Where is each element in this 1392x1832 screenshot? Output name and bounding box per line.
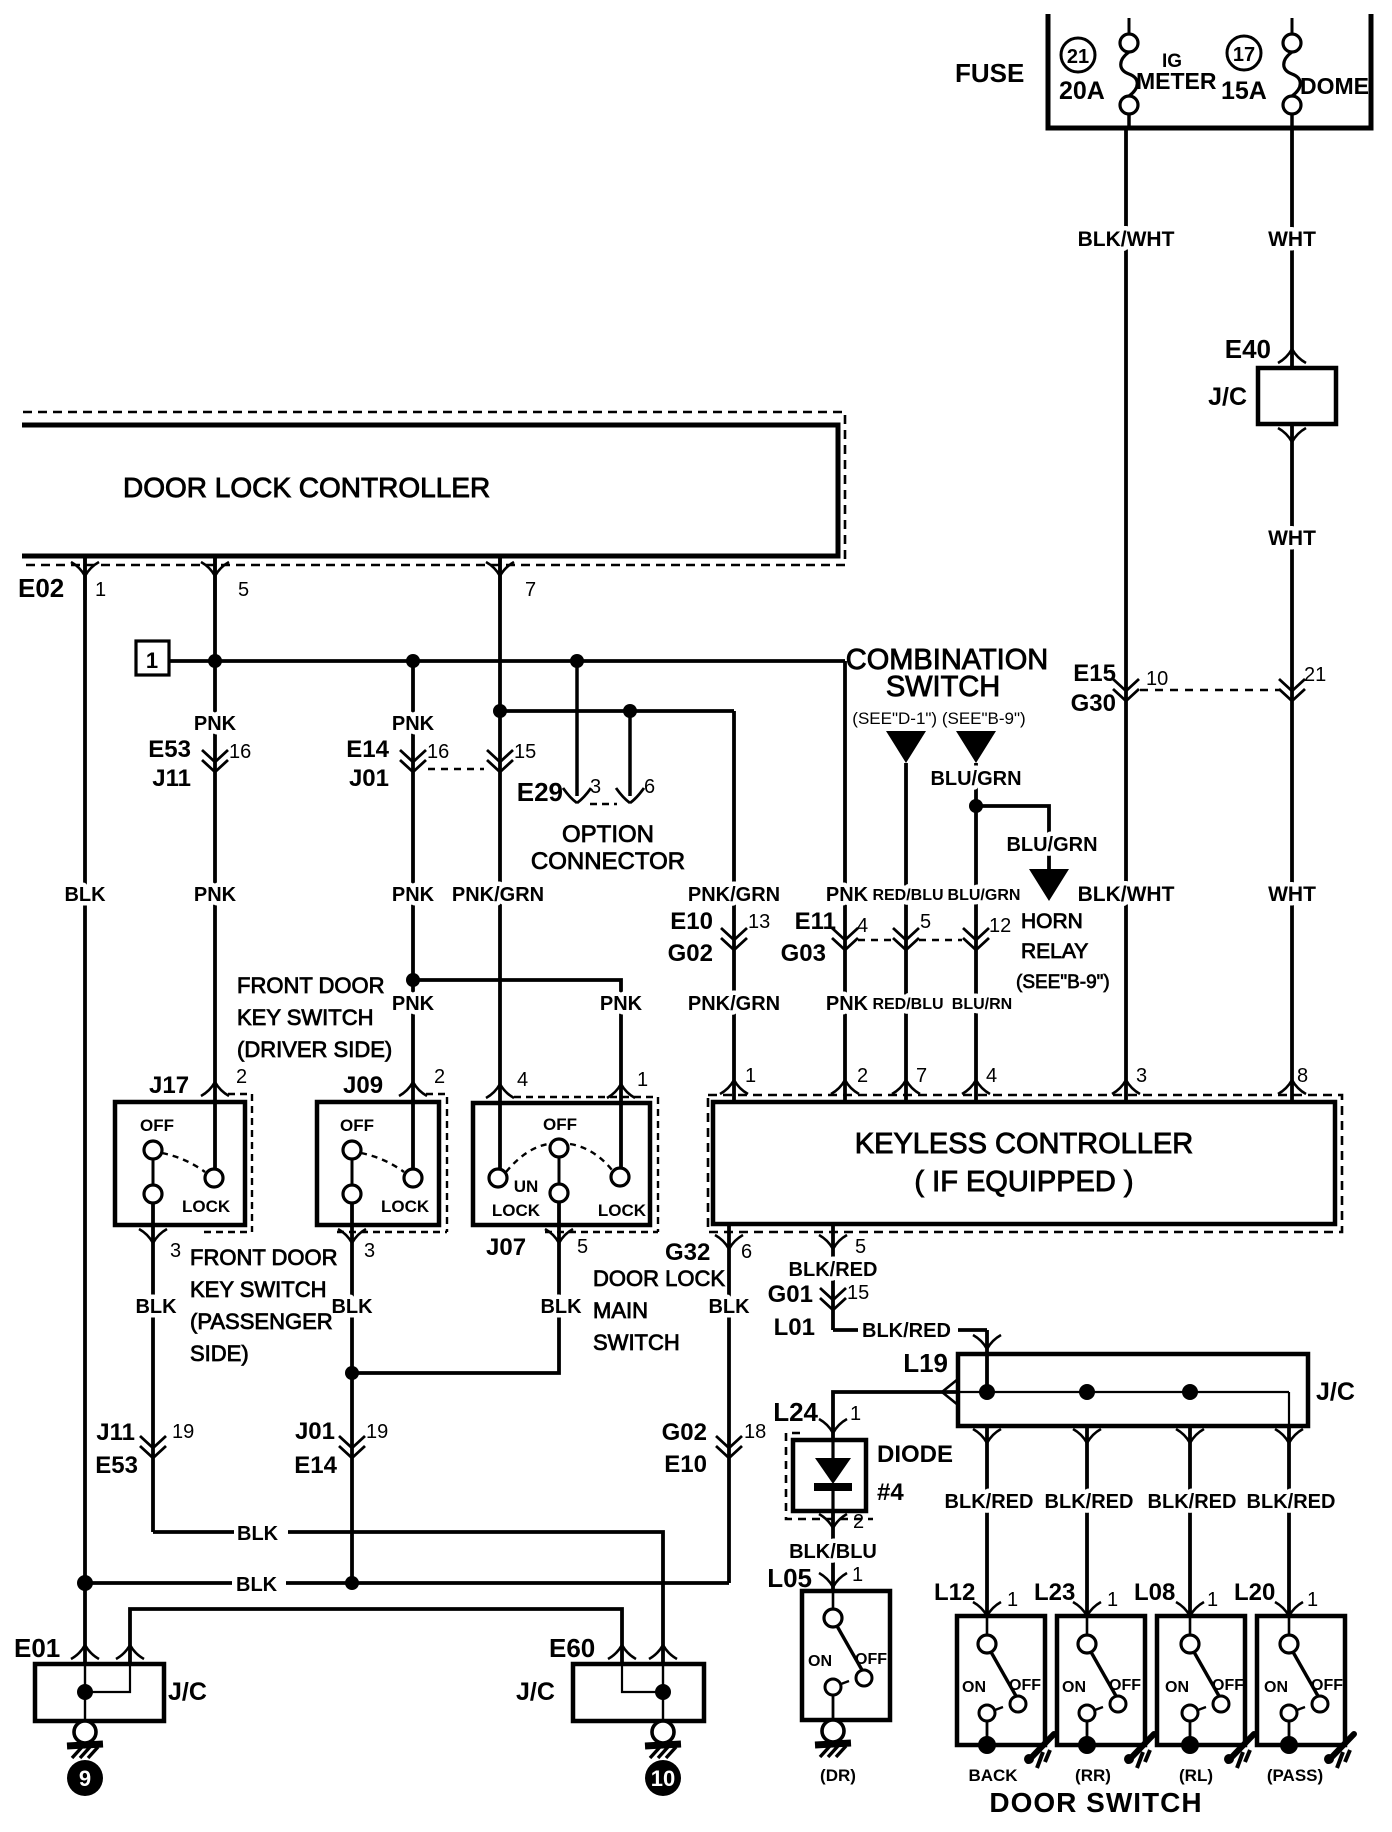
junction connector E60: [516, 1633, 704, 1721]
junction dot: [406, 973, 420, 987]
svg-text:10: 10: [651, 1766, 675, 1791]
svg-text:(SEE"B-9"): (SEE"B-9"): [1016, 972, 1110, 993]
svg-text:1: 1: [1007, 1589, 1018, 1611]
svg-text:ON: ON: [1062, 1679, 1086, 1696]
junction dot: [623, 704, 637, 718]
label BLU/GRN: [948, 887, 1021, 904]
svg-text:OFF: OFF: [1311, 1677, 1343, 1694]
wire BLK/WHT fuse to keyless pin3: [1124, 128, 1128, 1102]
ground at E01: [67, 1721, 103, 1758]
wire diode pin2 down: [831, 1511, 835, 1591]
label PNK/GRN: [688, 884, 780, 906]
wire BLK/RED L19 to L20: [1287, 1426, 1291, 1616]
svg-text:(PASS): (PASS): [1267, 1766, 1323, 1785]
door switch L12 BACK: [934, 1579, 1054, 1785]
svg-text:E02: E02: [18, 573, 64, 603]
svg-text:3: 3: [170, 1240, 181, 1262]
L19 bottom pin: [1275, 1429, 1303, 1443]
label DOOR SWITCH: [989, 1787, 1202, 1818]
svg-text:E14: E14: [346, 736, 389, 763]
keyless pin 6: [715, 1235, 752, 1263]
svg-text:BLK/RED: BLK/RED: [945, 1491, 1034, 1513]
svg-text:15: 15: [514, 741, 536, 763]
svg-text:L08: L08: [1134, 1579, 1175, 1606]
diode #4: [786, 1433, 953, 1519]
svg-text:BLK/RED: BLK/RED: [1247, 1491, 1336, 1513]
svg-text:OFF: OFF: [543, 1115, 577, 1134]
junction dot: [345, 1576, 359, 1590]
svg-text:5: 5: [238, 579, 249, 601]
label BLK: [708, 1296, 750, 1318]
label front door key switch passenger side: [190, 1245, 337, 1366]
connector J11/E53 pin 19: [95, 1419, 194, 1479]
svg-text:BLK: BLK: [540, 1296, 582, 1318]
svg-text:3: 3: [590, 776, 601, 798]
svg-text:METER: METER: [1136, 68, 1217, 94]
wire node1 bus: [169, 659, 845, 663]
svg-text:6: 6: [741, 1241, 752, 1263]
pin into L19: [973, 1335, 1001, 1349]
svg-text:E29: E29: [517, 777, 563, 807]
svg-text:WHT: WHT: [1268, 527, 1316, 550]
svg-text:CONNECTOR: CONNECTOR: [531, 848, 685, 875]
fuse box: [955, 14, 1371, 128]
svg-text:(DRIVER SIDE): (DRIVER SIDE): [237, 1037, 392, 1062]
wire BLK E02-1 down: [83, 556, 87, 1583]
svg-text:4: 4: [857, 915, 868, 937]
connector G02/E10 pin 18: [662, 1419, 767, 1478]
svg-text:E01: E01: [14, 1633, 60, 1663]
keyless pin 5: [819, 1235, 866, 1258]
label BLK/WHT top: [1078, 228, 1175, 251]
svg-text:1: 1: [850, 1403, 861, 1425]
svg-text:G03: G03: [781, 940, 826, 967]
ground ref 10: [645, 1760, 681, 1796]
door switch L08 (RL): [1134, 1579, 1254, 1785]
L19 bottom pin: [1176, 1429, 1204, 1443]
label G32: [665, 1239, 710, 1266]
J09 pin 3: [338, 1229, 375, 1262]
svg-text:RED/BLU: RED/BLU: [872, 996, 943, 1013]
option connector E29 pins 3 6: [517, 661, 685, 875]
svg-text:J11: J11: [96, 1419, 135, 1446]
wire BLK/RED L19 to L12: [985, 1426, 989, 1616]
connector G01/L01 pin 15: [768, 1281, 870, 1341]
svg-text:FRONT DOOR: FRONT DOOR: [190, 1245, 337, 1270]
svg-text:PNK: PNK: [392, 993, 435, 1015]
wire PNK branch: [413, 980, 621, 1168]
junction dot: [969, 799, 983, 813]
svg-text:15: 15: [847, 1282, 869, 1304]
svg-text:BLK/RED: BLK/RED: [862, 1320, 951, 1342]
wire G32 pin6 down: [727, 1224, 731, 1583]
svg-text:G01: G01: [768, 1281, 813, 1308]
svg-text:7: 7: [525, 579, 536, 601]
svg-text:PNK: PNK: [392, 884, 435, 906]
keyless controller box: [708, 1095, 1342, 1232]
label PNK: [392, 884, 435, 906]
svg-text:FRONT DOOR: FRONT DOOR: [237, 973, 384, 998]
svg-text:OFF: OFF: [855, 1651, 887, 1668]
svg-text:BLU/RN: BLU/RN: [952, 996, 1012, 1013]
svg-text:E11: E11: [795, 908, 836, 935]
svg-text:16: 16: [229, 741, 251, 763]
label WHT mid: [1268, 527, 1316, 550]
svg-text:16: 16: [427, 741, 449, 763]
svg-text:J/C: J/C: [168, 1678, 207, 1706]
label RED/BLU: [872, 996, 943, 1013]
svg-text:(RR): (RR): [1075, 1766, 1111, 1785]
svg-text:PNK/GRN: PNK/GRN: [688, 884, 780, 906]
svg-text:1: 1: [852, 1564, 863, 1586]
label J07: [486, 1234, 526, 1261]
label door lock main switch: [593, 1266, 725, 1355]
wire BLK to E01: [83, 1583, 87, 1664]
door switch L23 (RR): [1034, 1579, 1154, 1785]
svg-text:BLK/RED: BLK/RED: [1148, 1491, 1237, 1513]
svg-text:J11: J11: [152, 765, 191, 792]
connector J01/E14 pin 19: [294, 1418, 388, 1479]
junction dot: [493, 704, 507, 718]
svg-text:10: 10: [1146, 668, 1168, 690]
svg-text:BLK: BLK: [708, 1296, 750, 1318]
wire bus2 corner down to E10 pin13 wire: [732, 711, 736, 1102]
svg-text:E40: E40: [1225, 334, 1271, 364]
wire WHT fuse to E40: [1290, 128, 1294, 368]
wire WHT E40 to keyless pin8: [1290, 424, 1294, 1102]
label BLK/BLU: [789, 1541, 877, 1563]
combination switch labels: [846, 644, 1048, 728]
wire J09 pin3 down: [350, 1203, 354, 1583]
label BLK/RED: [1045, 1491, 1134, 1513]
label BLK/RED: [1247, 1491, 1336, 1513]
label BLU/RN: [952, 996, 1012, 1013]
svg-text:21: 21: [1304, 664, 1326, 686]
svg-text:BLK/WHT: BLK/WHT: [1078, 883, 1175, 906]
label PNK/GRN: [452, 884, 544, 906]
svg-text:J/C: J/C: [516, 1678, 555, 1706]
svg-text:J/C: J/C: [1208, 383, 1247, 411]
svg-text:DOOR LOCK: DOOR LOCK: [593, 1266, 725, 1291]
svg-text:20A: 20A: [1059, 77, 1105, 105]
label BLK: [135, 1296, 177, 1318]
svg-text:J07: J07: [486, 1234, 526, 1261]
svg-text:J/C: J/C: [1316, 1378, 1355, 1406]
svg-text:SIDE): SIDE): [190, 1341, 249, 1366]
svg-text:(SEE"D-1") (SEE"B-9"): (SEE"D-1") (SEE"B-9"): [852, 709, 1025, 728]
junction dot: [345, 1366, 359, 1380]
svg-text:5: 5: [855, 1236, 866, 1258]
svg-text:(DR): (DR): [820, 1766, 856, 1785]
svg-text:BLU/GRN: BLU/GRN: [1006, 834, 1097, 856]
svg-text:1: 1: [1107, 1589, 1118, 1611]
svg-text:E53: E53: [148, 736, 191, 763]
svg-text:PNK/GRN: PNK/GRN: [452, 884, 544, 906]
svg-text:2: 2: [857, 1065, 868, 1087]
svg-text:1: 1: [1307, 1589, 1318, 1611]
svg-text:12: 12: [989, 915, 1011, 937]
junction connector L19: [903, 1348, 1355, 1426]
svg-text:J01: J01: [349, 765, 389, 792]
svg-text:ON: ON: [1264, 1679, 1288, 1696]
svg-text:ON: ON: [808, 1653, 832, 1670]
svg-text:ON: ON: [1165, 1679, 1189, 1696]
svg-text:E10: E10: [664, 1451, 707, 1478]
svg-text:BLK/RED: BLK/RED: [1045, 1491, 1134, 1513]
svg-text:L23: L23: [1034, 1579, 1075, 1606]
svg-text:18: 18: [744, 1421, 766, 1443]
svg-text:19: 19: [366, 1421, 388, 1443]
svg-text:6: 6: [644, 776, 655, 798]
svg-text:RELAY: RELAY: [1021, 940, 1088, 963]
fuse 17 15A: [1283, 18, 1301, 128]
svg-text:E60: E60: [549, 1633, 595, 1663]
door switch L05 (DR): [767, 1563, 890, 1785]
svg-text:1: 1: [95, 579, 106, 601]
svg-text:BLK/BLU: BLK/BLU: [789, 1541, 877, 1563]
wire bus corner down to E11 pin4 wire: [843, 661, 847, 1102]
svg-text:DOME: DOME: [1300, 73, 1369, 99]
svg-text:21: 21: [1067, 46, 1089, 68]
keyless controller top pins 1 2 7 4 3 8: [720, 1065, 1308, 1094]
svg-text:BLK/RED: BLK/RED: [789, 1259, 878, 1281]
svg-text:E14: E14: [294, 1452, 337, 1479]
svg-text:RED/BLU: RED/BLU: [872, 887, 943, 904]
svg-text:13: 13: [748, 911, 770, 933]
svg-text:LOCK: LOCK: [492, 1201, 541, 1220]
wire BLU/GRN comb to keyless pin4: [974, 763, 978, 1102]
label PNK: [392, 993, 435, 1015]
svg-text:E15: E15: [1073, 660, 1116, 687]
svg-text:#4: #4: [877, 1479, 904, 1506]
svg-text:SWITCH: SWITCH: [593, 1330, 680, 1355]
junction connector E40: [1208, 334, 1336, 442]
label front door key switch driver side: [237, 973, 392, 1062]
node 1 box: [136, 641, 169, 675]
svg-text:OFF: OFF: [1109, 1677, 1141, 1694]
junction dot: [77, 1575, 93, 1591]
svg-text:L05: L05: [767, 1563, 812, 1593]
ground ref 9: [67, 1760, 103, 1796]
svg-text:BLK: BLK: [64, 884, 106, 906]
svg-text:OFF: OFF: [140, 1116, 174, 1135]
svg-text:PNK: PNK: [194, 713, 237, 735]
svg-text:BLK: BLK: [135, 1296, 177, 1318]
wire PNK E02-5 down to J17 LOCK: [213, 556, 217, 1170]
label PNK: [600, 993, 643, 1015]
svg-text:WHT: WHT: [1268, 883, 1316, 906]
svg-text:G30: G30: [1071, 690, 1116, 717]
svg-text:SWITCH: SWITCH: [886, 671, 1000, 703]
svg-text:UN: UN: [514, 1177, 539, 1196]
svg-text:(RL): (RL): [1179, 1766, 1213, 1785]
svg-text:4: 4: [986, 1065, 997, 1087]
svg-text:J09: J09: [343, 1072, 383, 1099]
junction dot: [208, 654, 222, 668]
L19 bottom pin: [1073, 1429, 1101, 1443]
svg-text:L24: L24: [773, 1397, 818, 1427]
junction connector E01: [14, 1633, 207, 1721]
svg-text:DOOR LOCK CONTROLLER: DOOR LOCK CONTROLLER: [123, 472, 490, 503]
connector E15/G30 pins 10-21: [1071, 660, 1327, 717]
L19 left pin arrow: [942, 1379, 958, 1405]
arrow to combination switch B-9: [956, 731, 996, 763]
wire RED/BLU comb to keyless pin7: [904, 763, 908, 1102]
svg-text:KEY SWITCH: KEY SWITCH: [237, 1005, 374, 1030]
junction dot: [406, 654, 420, 668]
junction dot: [570, 654, 584, 668]
svg-text:LOCK: LOCK: [381, 1197, 430, 1216]
label RED/BLU: [872, 887, 943, 904]
svg-text:1: 1: [637, 1069, 648, 1091]
wire BLK/RED L19 to L08: [1188, 1426, 1192, 1616]
svg-text:BLU/GRN: BLU/GRN: [948, 887, 1021, 904]
label BLK: [540, 1296, 582, 1318]
connector E53/J11 pin 16: [148, 736, 251, 792]
svg-text:ON: ON: [962, 1679, 986, 1696]
label PNK: [826, 884, 869, 906]
diode pin 2: [819, 1511, 864, 1533]
svg-text:BLK: BLK: [331, 1296, 373, 1318]
svg-text:BLK: BLK: [236, 1574, 278, 1596]
label BLK/RED: [789, 1259, 878, 1281]
svg-text:BLU/GRN: BLU/GRN: [930, 768, 1021, 790]
svg-text:FUSE: FUSE: [955, 58, 1024, 88]
svg-text:4: 4: [517, 1069, 528, 1091]
svg-text:2: 2: [236, 1066, 247, 1088]
svg-text:J01: J01: [295, 1418, 335, 1445]
svg-text:OFF: OFF: [1009, 1677, 1041, 1694]
L19 bottom pin: [973, 1429, 1001, 1443]
svg-text:MAIN: MAIN: [593, 1298, 648, 1323]
label PNK: [194, 713, 237, 735]
svg-text:E53: E53: [95, 1452, 138, 1479]
svg-text:1: 1: [745, 1065, 756, 1087]
wire pin5 down: [833, 1224, 987, 1392]
svg-text:L01: L01: [774, 1314, 815, 1341]
svg-text:L12: L12: [934, 1579, 975, 1606]
svg-text:LOCK: LOCK: [182, 1197, 231, 1216]
svg-text:L19: L19: [903, 1348, 948, 1378]
label WHT top: [1268, 228, 1316, 251]
label BLK/RED: [1148, 1491, 1237, 1513]
label PNK: [392, 713, 435, 735]
label BLK/RED: [945, 1491, 1034, 1513]
svg-text:( IF EQUIPPED ): ( IF EQUIPPED ): [914, 1166, 1133, 1198]
label PNK: [194, 884, 237, 906]
label BLK/WHT row: [1078, 883, 1175, 906]
label BLK: [331, 1296, 373, 1318]
J07 pin 5: [545, 1229, 588, 1258]
svg-text:BLK/WHT: BLK/WHT: [1078, 228, 1175, 251]
door switch L20 (PASS): [1234, 1579, 1354, 1785]
J17 pin 3: [139, 1229, 181, 1262]
fuse 21 20A: [1120, 18, 1138, 128]
label BLK: [236, 1574, 278, 1596]
svg-text:KEYLESS CONTROLLER: KEYLESS CONTROLLER: [855, 1128, 1193, 1160]
svg-text:5: 5: [920, 911, 931, 933]
wire BLK/RED L19 to L23: [1085, 1426, 1089, 1616]
connector E02 pins 1 5 7: [18, 556, 536, 603]
wire L19 left exit to L24: [833, 1392, 958, 1440]
svg-text:L20: L20: [1234, 1579, 1275, 1606]
svg-text:PNK: PNK: [392, 713, 435, 735]
svg-text:2: 2: [853, 1511, 864, 1533]
svg-text:LOCK: LOCK: [598, 1201, 647, 1220]
svg-text:1: 1: [146, 648, 158, 673]
svg-text:BACK: BACK: [968, 1766, 1018, 1785]
svg-text:15A: 15A: [1221, 77, 1267, 105]
label BLK: [64, 884, 106, 906]
wire PNK/GRN E02-7 down to J07 UNLOCK: [498, 556, 502, 1170]
arrow to combination switch D-1: [886, 731, 926, 763]
svg-text:BLK: BLK: [237, 1523, 279, 1545]
svg-text:OFF: OFF: [340, 1116, 374, 1135]
svg-text:OFF: OFF: [1212, 1677, 1244, 1694]
label WHT row: [1268, 883, 1316, 906]
wire BLK bus2: [85, 1581, 729, 1585]
connector L24 pin 1: [773, 1397, 861, 1433]
svg-text:PNK: PNK: [600, 993, 643, 1015]
svg-text:G02: G02: [662, 1419, 707, 1446]
connector E14/J01 pin16 - E29 pin15: [346, 736, 536, 792]
svg-text:3: 3: [1136, 1065, 1147, 1087]
svg-text:KEY SWITCH: KEY SWITCH: [190, 1277, 327, 1302]
front door key switch driver J17: [115, 1066, 252, 1232]
svg-text:PNK: PNK: [826, 884, 869, 906]
svg-text:WHT: WHT: [1268, 228, 1316, 251]
svg-text:J17: J17: [149, 1072, 189, 1099]
svg-text:DIODE: DIODE: [877, 1441, 953, 1468]
horn relay branch: [976, 806, 1110, 993]
wire J17 pin3 down: [151, 1203, 155, 1532]
svg-text:8: 8: [1297, 1065, 1308, 1087]
door lock controller box: [22, 412, 845, 565]
svg-text:(PASSENGER: (PASSENGER: [190, 1309, 333, 1334]
ground at E60: [645, 1721, 681, 1758]
svg-text:DOOR SWITCH: DOOR SWITCH: [989, 1787, 1202, 1818]
wire BLK J17 to E60: [153, 1532, 663, 1664]
label BLK/RED: [862, 1320, 951, 1342]
svg-text:7: 7: [916, 1065, 927, 1087]
wire bus2: [500, 709, 734, 713]
svg-text:G32: G32: [665, 1239, 710, 1266]
svg-text:HORN: HORN: [1021, 910, 1083, 933]
wire J07 pin5 to J09 wire: [352, 1202, 559, 1373]
svg-text:G02: G02: [668, 940, 713, 967]
svg-text:OPTION: OPTION: [562, 821, 654, 848]
label BLU/GRN: [930, 768, 1021, 790]
svg-text:5: 5: [577, 1236, 588, 1258]
svg-text:PNK/GRN: PNK/GRN: [688, 993, 780, 1015]
label BLK: [237, 1523, 279, 1545]
label PNK/GRN: [688, 993, 780, 1015]
svg-text:19: 19: [172, 1421, 194, 1443]
connector row E10/G02 13 E11/G03 4 5 12: [668, 908, 1012, 967]
svg-text:1: 1: [1207, 1589, 1218, 1611]
svg-text:PNK: PNK: [194, 884, 237, 906]
svg-text:3: 3: [364, 1240, 375, 1262]
svg-text:2: 2: [434, 1066, 445, 1088]
svg-text:17: 17: [1233, 44, 1255, 66]
wire E01-E60 tie: [130, 1609, 622, 1664]
wire PNK E02- node to J09 LOCK: [411, 661, 415, 1170]
svg-text:E10: E10: [670, 908, 713, 935]
door lock main switch J07: [473, 1069, 658, 1232]
svg-text:PNK: PNK: [826, 993, 869, 1015]
svg-text:9: 9: [79, 1766, 91, 1791]
label PNK: [826, 993, 869, 1015]
